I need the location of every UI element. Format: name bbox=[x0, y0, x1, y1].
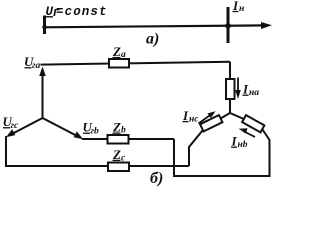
svg-text:гс: гс bbox=[11, 121, 20, 131]
svg-text:га: га bbox=[32, 61, 41, 71]
svg-text:Z: Z bbox=[112, 44, 121, 59]
emf phase a: arrow up from star centre bbox=[42, 73, 44, 118]
svg-text:Z: Z bbox=[112, 147, 121, 162]
wire: right leg to load b bbox=[230, 113, 245, 120]
resistor load b (angled box) bbox=[242, 115, 264, 132]
node: left terminal bar (generator terminal) bbox=[43, 16, 46, 35]
wire: from load c box down-left bbox=[189, 131, 203, 167]
wire: from load a box to load star vertex bbox=[229, 99, 231, 113]
wire: phase b down and along bottom bbox=[174, 130, 270, 177]
wire: phase a top wire bbox=[41, 62, 231, 65]
resistor Zb bbox=[108, 135, 129, 144]
wire: phase c bottom horizontal bbox=[5, 165, 189, 167]
svg-text:I: I bbox=[242, 82, 249, 97]
wire: phase a right side down bbox=[229, 62, 231, 79]
svg-text:I: I bbox=[182, 108, 189, 123]
wire: phase b horizontal bbox=[82, 138, 174, 140]
svg-text:=const: =const bbox=[56, 5, 108, 19]
svg-text:нb: нb bbox=[238, 140, 248, 150]
node junction dot on bus bbox=[225, 23, 231, 29]
resistor Za bbox=[109, 59, 129, 68]
resistor load c (angled box) bbox=[200, 115, 222, 131]
svg-text:на: на bbox=[249, 88, 259, 98]
wire arrowhead at right end of bus bbox=[261, 22, 272, 29]
svg-text:I: I bbox=[231, 134, 238, 149]
svg-text:а: а bbox=[121, 50, 126, 60]
svg-text:б): б) bbox=[150, 170, 163, 187]
wire: phase c from star to bottom-left corner bbox=[5, 136, 7, 166]
resistor Zc bbox=[108, 163, 129, 172]
node: right terminal bar (load tap) bbox=[227, 7, 230, 43]
wire: left leg to load c bbox=[221, 113, 231, 119]
emf phase b: arrow down-right bbox=[43, 118, 81, 138]
wire: main horizontal bus line bbox=[44, 25, 263, 27]
resistor load a (vertical box) bbox=[226, 79, 235, 99]
svg-text:гb: гb bbox=[91, 127, 100, 137]
emf phase c: arrow down-left bbox=[9, 118, 43, 136]
arrow Iнс (up-right) bbox=[199, 115, 212, 124]
svg-text:нс: нс bbox=[189, 115, 199, 125]
arrow Iна (down) bbox=[237, 78, 239, 94]
arrow Iнb (up-left) bbox=[243, 131, 255, 137]
svg-text:а): а) bbox=[146, 31, 159, 48]
svg-text:н: н bbox=[239, 4, 244, 14]
svg-text:Z: Z bbox=[112, 120, 121, 135]
svg-text:b: b bbox=[121, 126, 126, 136]
